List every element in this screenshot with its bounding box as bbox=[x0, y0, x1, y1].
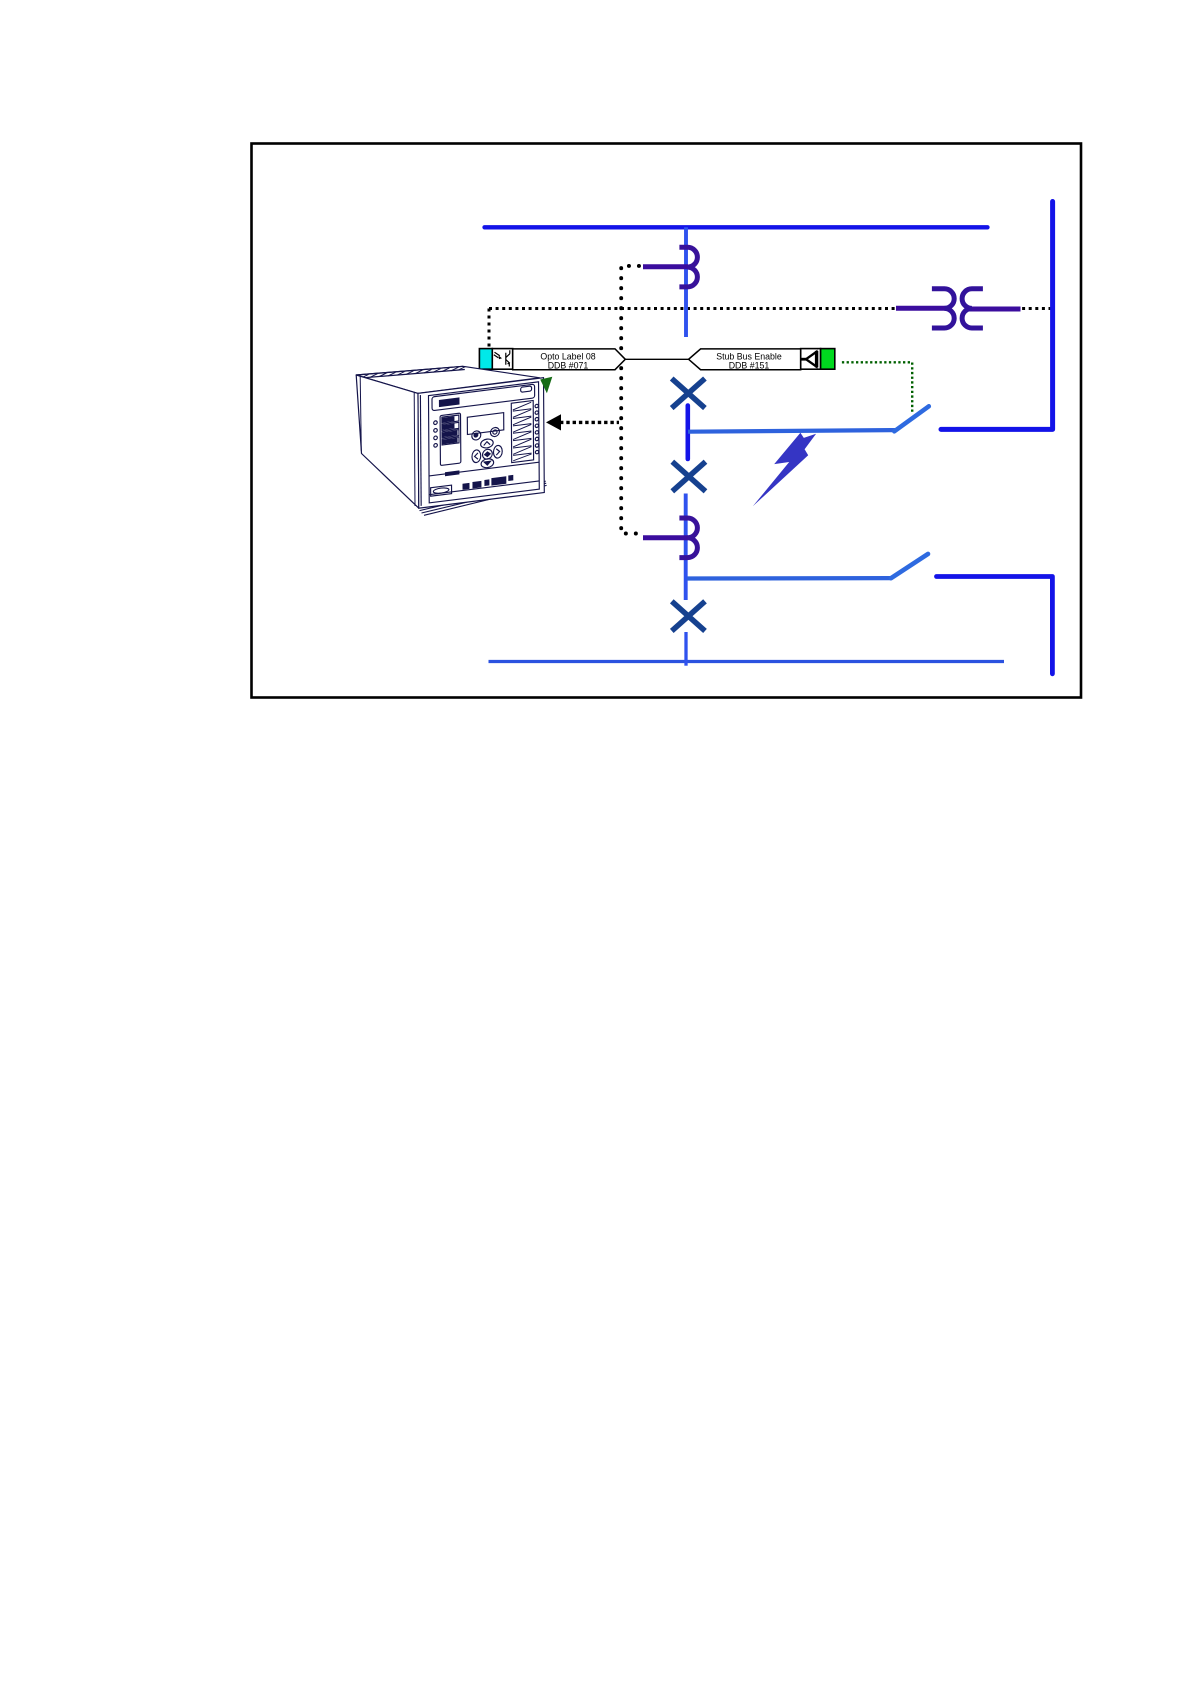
dashed arrow to relay bbox=[560, 421, 619, 424]
VT primary lead left bbox=[896, 306, 950, 311]
relay brand logo bbox=[439, 398, 458, 406]
DDB label: output cell (green) bbox=[821, 349, 835, 370]
CT CT1 bbox=[679, 247, 697, 287]
dotted wire: vertical black dotted CT secondary link bbox=[621, 266, 640, 534]
wire: stub branch lower bbox=[687, 576, 891, 581]
green dotted trip link bbox=[842, 362, 912, 412]
circuit breaker X2 bbox=[672, 462, 705, 492]
relay left LEDs bbox=[434, 421, 438, 425]
relay bottom connectors bbox=[462, 475, 513, 490]
bus: right upper bus L-shape bbox=[941, 202, 1053, 430]
relay right LED column bbox=[535, 404, 538, 408]
CT CT2 bbox=[679, 518, 697, 558]
circuit breaker X3 bbox=[672, 601, 705, 631]
relay clear button bbox=[490, 427, 499, 437]
relay left side face bbox=[356, 375, 419, 508]
DDB label: right banner Stub Bus Enable bbox=[689, 349, 801, 370]
DDB label: opto icon cell bbox=[492, 349, 512, 370]
link line between banners bbox=[625, 358, 688, 360]
relay top face bbox=[356, 366, 540, 393]
lightning bolt fault symbol bbox=[753, 433, 816, 507]
output contact icon bbox=[801, 351, 818, 368]
relay read button bbox=[472, 430, 481, 440]
circuit breaker X1 bbox=[672, 379, 705, 409]
relay terminal block bbox=[511, 400, 533, 462]
disconnector blade upper (open) bbox=[894, 406, 929, 431]
relay cover slot bbox=[521, 386, 532, 392]
bus: bottom busbar bbox=[489, 660, 1005, 663]
relay front panel bbox=[418, 378, 544, 508]
disconnector blade lower (open) bbox=[891, 554, 928, 578]
green download arrow bbox=[540, 377, 552, 394]
dotted wire: horizontal black dotted from opto input to right CT bbox=[489, 307, 895, 310]
wire: stub branch upper bbox=[688, 430, 895, 432]
dotted wire: horizontal black dotted right CT to bus bbox=[1021, 307, 1052, 310]
dotted wire: vertical black dotted drop to opto input bbox=[488, 309, 491, 347]
relay top cover strip bbox=[432, 384, 535, 411]
wire: feeder middle segment bbox=[684, 494, 688, 601]
relay left label panel bbox=[440, 413, 461, 465]
CT1 secondary lead bbox=[643, 264, 688, 269]
VT left coil bbox=[932, 289, 954, 328]
relay keypad bbox=[481, 438, 494, 448]
bus: top busbar bbox=[485, 225, 988, 229]
wire: feeder bottom segment bbox=[684, 632, 687, 666]
bus: right lower bus bbox=[937, 577, 1053, 674]
relay top rear lip hatched bbox=[356, 366, 465, 378]
wire: feeder top segment bbox=[684, 227, 688, 337]
wire: feeder CB link segment bbox=[685, 406, 690, 460]
VT right coil bbox=[962, 289, 983, 328]
figure frame bbox=[252, 144, 1082, 698]
opto-coupler icon bbox=[494, 350, 510, 366]
relay LCD display bbox=[467, 413, 503, 435]
relay case bbox=[356, 366, 546, 515]
DDB label: output contact icon cell bbox=[801, 349, 821, 370]
DDB label: opto input cell (cyan) bbox=[479, 349, 492, 370]
relay bottom edge lines bbox=[420, 481, 547, 515]
relay bottom strip bbox=[429, 462, 539, 476]
svg-text:DDB #151: DDB #151 bbox=[729, 361, 770, 371]
DDB label: left banner Opto Label 08 bbox=[513, 349, 626, 370]
VT primary lead right bbox=[968, 307, 1021, 312]
CT2 secondary lead bbox=[643, 535, 688, 540]
svg-text:DDB #071: DDB #071 bbox=[548, 361, 589, 371]
